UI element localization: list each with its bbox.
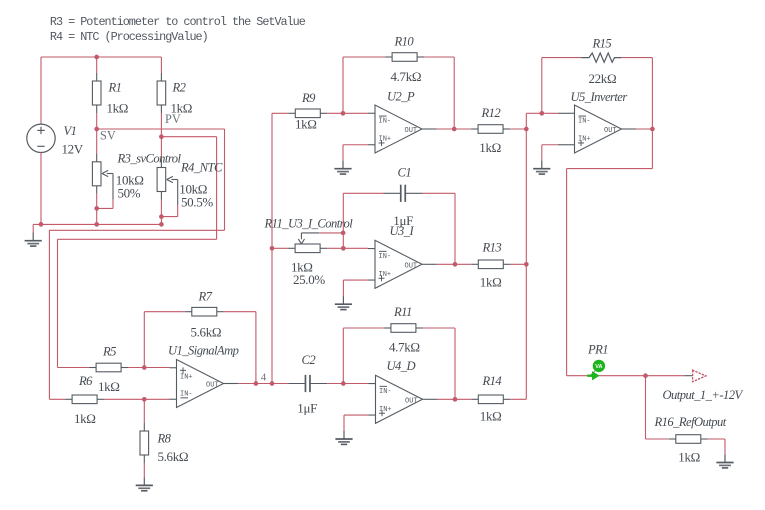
svg-text:IN-: IN- <box>379 117 392 125</box>
svg-text:1kΩ: 1kΩ <box>479 140 501 155</box>
svg-text:IN-: IN- <box>379 388 392 396</box>
svg-text:1kΩ: 1kΩ <box>295 117 317 132</box>
svg-text:OUT: OUT <box>405 127 418 135</box>
svg-text:IN+: IN+ <box>379 271 392 279</box>
svg-text:1μF: 1μF <box>393 213 413 228</box>
svg-text:R3_svControl: R3_svControl <box>117 152 182 166</box>
svg-text:R11: R11 <box>393 305 412 319</box>
svg-text:1kΩ: 1kΩ <box>678 450 700 465</box>
svg-text:C2: C2 <box>302 353 317 367</box>
svg-text:IN+: IN+ <box>379 406 392 414</box>
svg-text:25.0%: 25.0% <box>293 272 325 287</box>
svg-text:IN+: IN+ <box>379 136 392 144</box>
svg-text:4: 4 <box>261 371 267 383</box>
svg-text:R4_NTC: R4_NTC <box>180 161 223 175</box>
svg-text:R6: R6 <box>78 374 93 388</box>
svg-text:IN-: IN- <box>379 253 392 261</box>
svg-text:5.6kΩ: 5.6kΩ <box>158 449 189 464</box>
svg-text:U5_Inverter: U5_Inverter <box>571 90 628 104</box>
svg-text:R7: R7 <box>198 289 213 303</box>
svg-text:R9: R9 <box>301 91 316 105</box>
svg-text:R16_RefOutput: R16_RefOutput <box>654 415 727 429</box>
svg-text:R1: R1 <box>108 81 122 95</box>
svg-text:VA: VA <box>595 364 602 370</box>
svg-text:R12: R12 <box>481 106 502 120</box>
svg-text:R3 = Potentiometer to control: R3 = Potentiometer to control the SetVal… <box>50 15 306 29</box>
svg-text:12V: 12V <box>62 142 84 157</box>
svg-text:OUT: OUT <box>206 382 219 390</box>
svg-text:50%: 50% <box>118 186 141 201</box>
svg-text:1kΩ: 1kΩ <box>480 275 502 290</box>
svg-text:OUT: OUT <box>405 263 418 271</box>
svg-text:1kΩ: 1kΩ <box>480 409 502 424</box>
svg-text:OUT: OUT <box>604 127 617 135</box>
svg-text:4.7kΩ: 4.7kΩ <box>389 340 420 355</box>
svg-text:5.6kΩ: 5.6kΩ <box>191 325 222 340</box>
svg-text:U2_P: U2_P <box>387 90 415 104</box>
svg-text:OUT: OUT <box>405 398 418 406</box>
svg-text:C1: C1 <box>398 166 412 180</box>
svg-text:R15: R15 <box>592 37 612 51</box>
svg-text:U4_D: U4_D <box>387 359 416 373</box>
svg-text:PR1: PR1 <box>587 343 608 357</box>
svg-text:R11_U3_I_Control: R11_U3_I_Control <box>264 217 354 231</box>
svg-text:R2: R2 <box>172 81 187 95</box>
svg-text:U1_SignalAmp: U1_SignalAmp <box>168 343 239 357</box>
svg-text:R8: R8 <box>157 432 172 446</box>
svg-text:IN-: IN- <box>578 117 591 125</box>
svg-text:Output_1_+-12V: Output_1_+-12V <box>663 388 744 402</box>
svg-text:50.5%: 50.5% <box>181 195 213 210</box>
svg-text:R10: R10 <box>394 35 415 49</box>
svg-text:1kΩ: 1kΩ <box>107 101 129 116</box>
svg-text:IN+: IN+ <box>180 374 193 382</box>
svg-text:1kΩ: 1kΩ <box>98 379 120 394</box>
svg-text:IN+: IN+ <box>578 136 591 144</box>
svg-text:1kΩ: 1kΩ <box>74 411 96 426</box>
svg-text:1μF: 1μF <box>297 401 317 416</box>
svg-text:R5: R5 <box>102 345 116 359</box>
svg-text:22kΩ: 22kΩ <box>589 71 617 86</box>
svg-text:R4 = NTC (ProcessingValue): R4 = NTC (ProcessingValue) <box>50 30 208 44</box>
svg-text:R14: R14 <box>482 374 503 388</box>
svg-text:4.7kΩ: 4.7kΩ <box>391 69 422 84</box>
svg-text:SV: SV <box>100 128 116 142</box>
svg-text:PV: PV <box>165 112 181 126</box>
svg-text:R13: R13 <box>482 241 502 255</box>
svg-text:V1: V1 <box>64 124 77 138</box>
